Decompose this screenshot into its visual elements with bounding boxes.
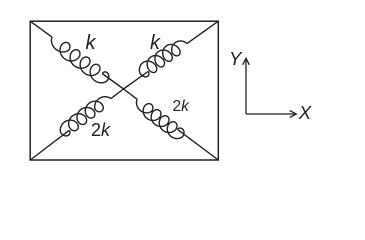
- label k (top-left spring): [86, 33, 96, 53]
- wire spring k to center node: [124, 71, 149, 89]
- wire spring k to center node: [102, 74, 123, 90]
- spring 2k (bottom-left): [60, 97, 110, 136]
- spring k (top-left): [51, 37, 108, 83]
- Y axis arrow: [245, 60, 247, 114]
- wire spring 2k to bottom-left corner: [30, 130, 69, 160]
- wire top-left corner to spring k: [30, 21, 52, 37]
- wire top-right corner to spring k: [187, 21, 218, 43]
- spring 2k (bottom-right): [136, 99, 184, 138]
- label Y: [229, 50, 241, 69]
- rigid rectangular frame: [30, 21, 218, 160]
- spring k (top-right): [139, 41, 187, 77]
- label k (top-right spring): [150, 33, 160, 53]
- wire center node to spring 2k (bottom-left): [111, 89, 124, 99]
- label 2k (bottom-right spring): [173, 99, 189, 115]
- label X: [299, 104, 311, 123]
- X axis arrow: [246, 113, 295, 115]
- wire spring 2k to bottom-right corner: [178, 129, 219, 160]
- wire center node to spring 2k (bottom-right): [124, 89, 138, 99]
- label 2k (bottom-left spring): [91, 121, 110, 139]
